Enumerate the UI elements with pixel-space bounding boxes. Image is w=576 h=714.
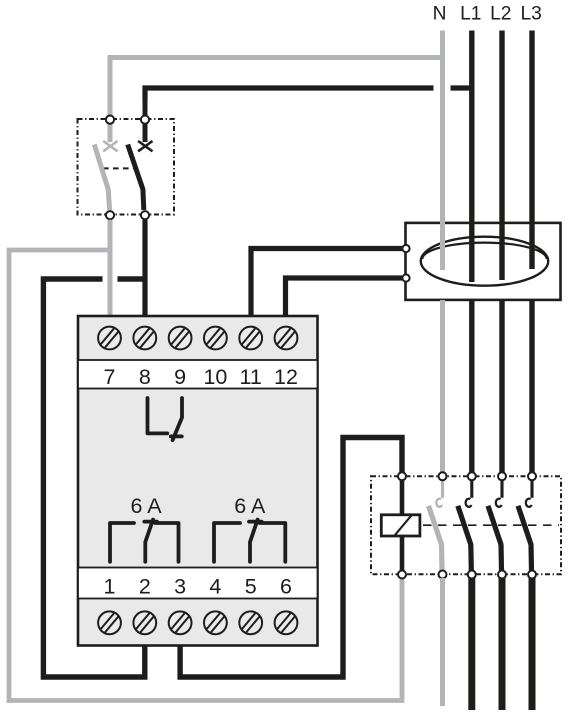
internal contact tip bar terminal 9 <box>171 434 182 438</box>
svg-text:N: N <box>433 4 447 25</box>
breaker N pole X contact mark (grey) <box>103 141 117 151</box>
screw terminal 6 <box>275 611 298 634</box>
relay contact arm terminal 1 <box>110 523 134 562</box>
contactor terminal circle bottom x=532 <box>528 571 536 579</box>
wire: terminal 3 to contactor coil A1 route <box>180 438 402 678</box>
internal contact blade terminal 9 <box>173 398 182 440</box>
svg-text:10: 10 <box>203 365 227 389</box>
wire: L3 vertical below CT to contactor <box>529 300 534 473</box>
wire: contactor pole feed stub x=502 <box>500 480 503 498</box>
svg-text:6 A: 6 A <box>234 494 266 518</box>
svg-text:6 A: 6 A <box>130 494 162 518</box>
svg-text:4: 4 <box>209 575 221 599</box>
wire: L2 vertical below CT to contactor <box>499 300 504 473</box>
relay device U1 body <box>78 316 318 646</box>
svg-text:7: 7 <box>104 365 116 389</box>
wire: contactor pole feed stub x=471.8 <box>470 480 473 498</box>
breaker terminal circle bottom-right <box>141 211 149 219</box>
wire: contactor pole feed stub x=532 <box>530 480 533 498</box>
wire: L1 branch to breaker left segment with corner <box>145 88 434 100</box>
wire: black branch left segment (to left rail) <box>43 279 144 677</box>
contactor moving blade x=532 <box>518 506 532 571</box>
svg-text:3: 3 <box>174 575 186 599</box>
relay contact arm terminal 3 <box>155 523 178 562</box>
wire: L3 output below contactor <box>529 578 536 710</box>
breaker L pole feed stub <box>143 91 148 142</box>
screw terminal 3 <box>169 611 192 634</box>
svg-text:L2: L2 <box>490 4 511 25</box>
screw terminal 8 <box>133 327 156 350</box>
current transformer T1 toroid inner rim arc <box>422 243 546 259</box>
contactor terminal circle top x=402 <box>398 472 406 480</box>
svg-text:5: 5 <box>245 575 257 599</box>
svg-text:L1: L1 <box>460 4 481 25</box>
CT secondary terminal circle lower <box>402 274 409 281</box>
wire: grey N branch to breaker (horizontal + down) <box>110 58 443 71</box>
relay contact arm terminal 6 <box>260 523 286 562</box>
contactor terminal circle bottom x=402 <box>398 571 406 579</box>
circuit breaker S1 enclosure (dash-dot) <box>78 119 175 215</box>
wire: contactor pole feed stub x=442.5 <box>441 480 444 498</box>
screw terminal 1 <box>98 611 121 634</box>
contactor fixed-contact hook x=532 <box>526 499 532 507</box>
svg-text:12: 12 <box>274 365 298 389</box>
contactor terminal circle bottom x=471.8 <box>468 571 476 579</box>
breaker terminal circle top-left <box>106 116 114 124</box>
contactor fixed-contact hook x=471.8 <box>466 499 472 507</box>
relay contact tip bar terminal 2 <box>144 520 157 524</box>
wire: L1 branch to breaker right segment <box>451 85 472 90</box>
wire: breaker N output down to terminal 7 (grey) <box>108 220 113 326</box>
svg-text:6: 6 <box>280 575 292 599</box>
wire: N output below contactor (grey) <box>440 578 445 706</box>
screw terminal 12 <box>275 327 298 350</box>
wire: L3 feed vertical top section <box>529 31 534 270</box>
contactor moving blade x=502 <box>488 506 502 571</box>
svg-text:11: 11 <box>240 365 262 389</box>
contactor K1 enclosure (dash-dot) <box>371 476 561 574</box>
breaker N pole feed stub (grey) <box>108 60 113 142</box>
contactor mechanical linkage dashes <box>423 524 559 526</box>
wire: N feed vertical (grey) top section <box>440 31 445 271</box>
screw terminal 11 <box>239 327 262 350</box>
svg-text:L3: L3 <box>521 4 542 25</box>
breaker terminal circle top-right <box>141 116 149 124</box>
screw terminal 10 <box>204 327 227 350</box>
svg-text:8: 8 <box>139 365 151 389</box>
breaker L pole X contact mark <box>138 141 152 151</box>
wire: L2 feed vertical top section <box>499 31 504 281</box>
screw terminal 2 <box>133 611 156 634</box>
contactor coil K1 diagonal <box>394 515 411 536</box>
wire: L1 feed vertical top section <box>469 31 474 283</box>
internal contact arm terminal 8 <box>148 398 168 433</box>
wire: L2 output below contactor <box>499 578 506 710</box>
breaker L pole blade <box>128 145 144 211</box>
contactor fixed-contact hook x=502 <box>496 499 502 507</box>
contactor moving blade x=471.8 <box>458 506 472 571</box>
current transformer T1 toroid outer ellipse <box>421 237 548 286</box>
wire: grey N rail left/bottom to contactor coil A2 <box>9 250 402 701</box>
current transformer T1 enclosure <box>406 223 561 300</box>
relay contact blade terminal 2 <box>145 520 153 562</box>
contactor terminal circle top x=471.8 <box>468 472 476 480</box>
device label band 1-6 <box>78 568 318 599</box>
breaker terminal circle bottom-left <box>106 211 114 219</box>
relay contact blade terminal 5 <box>250 520 258 562</box>
relay contact arm terminal 4 <box>214 523 240 562</box>
svg-text:2: 2 <box>139 575 151 599</box>
contactor terminal circle top x=442.5 <box>439 472 447 480</box>
device label band 7-12 <box>78 360 318 389</box>
svg-text:9: 9 <box>174 365 186 389</box>
wire: L1 vertical below CT to contactor <box>469 300 474 473</box>
screw terminal 4 <box>204 611 227 634</box>
contactor coil K1 symbol <box>381 515 420 536</box>
CT secondary terminal circle upper <box>402 245 409 252</box>
wire: N vertical below CT to contactor <box>440 300 445 473</box>
wire: L1 output below contactor <box>468 578 475 710</box>
contactor terminal circle top x=502 <box>498 472 506 480</box>
contactor moving blade x=442.5 <box>429 506 443 571</box>
contactor terminal circle top x=532 <box>528 472 536 480</box>
wire: breaker L output down to terminal 8 <box>142 220 147 326</box>
screw terminal 7 <box>98 327 121 350</box>
relay contact tip bar terminal 5 <box>249 520 262 524</box>
breaker N pole blade (grey) <box>94 145 109 211</box>
screw terminal 5 <box>239 611 262 634</box>
wire: terminal 11 to CT secondary upper <box>251 249 402 327</box>
contactor terminal circle bottom x=502 <box>498 571 506 579</box>
screw terminal 9 <box>169 327 192 350</box>
contactor coil K1 wire top <box>400 480 405 515</box>
wire: black branch right segment joining breaker output <box>118 276 145 281</box>
breaker mechanical linkage dashes <box>103 167 134 169</box>
contactor fixed-contact hook x=442.5 <box>436 499 442 507</box>
contactor coil K1 wire bottom <box>400 536 405 571</box>
wire: terminal 12 to CT secondary lower <box>286 278 403 326</box>
svg-text:1: 1 <box>104 575 116 599</box>
contactor terminal circle bottom x=442.5 <box>439 571 447 579</box>
